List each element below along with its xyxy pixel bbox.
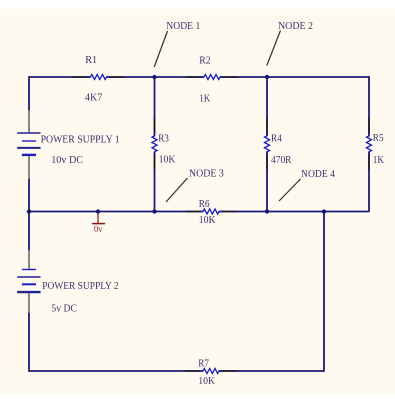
svg-text:R7: R7 <box>198 358 209 370</box>
resistor R7 <box>185 369 237 374</box>
junction R4 bottom <box>265 209 269 213</box>
resistor R5 <box>367 118 372 170</box>
resistor R3 <box>152 118 157 170</box>
resistor R1 <box>73 75 125 80</box>
svg-text:10K: 10K <box>198 375 215 387</box>
ground 0v <box>92 212 105 224</box>
junction node 1 <box>152 75 156 79</box>
wire bottom rail segment a <box>29 370 203 372</box>
wire top rail segment c <box>220 76 369 78</box>
svg-text:NODE 1: NODE 1 <box>166 20 200 32</box>
wire top rail segment a <box>29 76 90 78</box>
svg-text:NODE 4: NODE 4 <box>301 168 335 180</box>
svg-text:1K: 1K <box>373 154 384 166</box>
svg-text:0v: 0v <box>94 224 103 234</box>
resistor R2 <box>186 75 238 80</box>
svg-text:R5: R5 <box>373 132 384 144</box>
wire R3 branch lower <box>154 152 156 212</box>
svg-text:10K: 10K <box>159 154 176 166</box>
junction node 4 <box>322 209 326 213</box>
junction left-middle <box>27 209 31 213</box>
svg-text:5v DC: 5v DC <box>51 303 77 315</box>
svg-text:470R: 470R <box>271 154 292 166</box>
svg-text:10K: 10K <box>199 214 216 226</box>
wire left rail upper <box>28 76 30 111</box>
resistor R6 <box>185 209 237 214</box>
wire bottom rail segment b <box>219 370 324 372</box>
svg-text:10v DC: 10v DC <box>51 154 83 166</box>
svg-text:4K7: 4K7 <box>85 92 103 104</box>
svg-text:1K: 1K <box>199 93 210 105</box>
wire middle rail segment b <box>219 211 369 213</box>
wire R4 branch lower <box>266 152 268 212</box>
wire left rail lower <box>28 313 30 372</box>
svg-text:R6: R6 <box>199 198 210 210</box>
wire middle rail segment a <box>29 211 203 213</box>
node NODE 1 <box>154 20 200 67</box>
svg-text:NODE 2: NODE 2 <box>278 20 313 32</box>
svg-text:R4: R4 <box>271 132 282 144</box>
node NODE 2 <box>267 20 313 66</box>
junction ground tap <box>96 209 100 213</box>
svg-text:POWER SUPPLY 1: POWER SUPPLY 1 <box>41 133 120 145</box>
wire top rail segment b <box>107 76 204 78</box>
resistor R4 <box>265 118 270 170</box>
junction node 3 <box>152 209 156 213</box>
battery V2 POWER SUPPLY 2 <box>17 250 40 313</box>
wire left rail between supplies <box>28 179 30 251</box>
node NODE 4 <box>279 168 335 201</box>
wire node4 drop <box>323 212 325 372</box>
wire R3 branch upper <box>154 77 156 136</box>
battery V1 POWER SUPPLY 1 <box>17 110 40 179</box>
node NODE 3 <box>166 168 224 203</box>
svg-text:POWER SUPPLY 2: POWER SUPPLY 2 <box>42 280 118 292</box>
junction node 2 <box>265 75 269 79</box>
wire right rail upper <box>368 76 370 136</box>
svg-text:R1: R1 <box>85 54 97 66</box>
svg-text:NODE 3: NODE 3 <box>189 168 224 180</box>
wire right rail lower <box>368 152 370 212</box>
svg-text:R3: R3 <box>158 133 169 145</box>
svg-text:R2: R2 <box>199 55 211 67</box>
wire R4 branch upper <box>266 77 268 136</box>
